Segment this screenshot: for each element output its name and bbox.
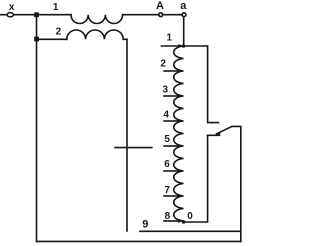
- tap 1 lead: [161, 45, 207, 47]
- terminal A (open circle): [159, 13, 163, 17]
- inductor L2 (3 humps above wire): [67, 30, 123, 39]
- wire: left stub to terminal x: [0, 14, 7, 16]
- arrow tap 3: [178, 94, 183, 98]
- svg-text:7: 7: [164, 185, 170, 196]
- tap 3 lead: [164, 95, 178, 97]
- arrow tap 5: [178, 144, 183, 148]
- svg-text:9: 9: [142, 219, 148, 231]
- inductor L1 (3 humps below wire): [71, 15, 123, 24]
- svg-text:x: x: [9, 2, 15, 13]
- terminal a (open circle): [182, 13, 186, 17]
- arrow tap 4: [178, 119, 183, 123]
- wire: terminal x to junction: [14, 14, 34, 16]
- wire 1: [39, 14, 71, 16]
- middle vertical wire: [126, 39, 128, 231]
- tap 2 lead: [164, 70, 178, 72]
- svg-text:1: 1: [53, 2, 59, 13]
- switch blade to right column: [217, 126, 241, 241]
- wire 2: [39, 38, 67, 40]
- wire 9: [140, 230, 241, 232]
- wire: A to a: [163, 14, 181, 16]
- arrow tap 6: [178, 169, 183, 173]
- junction square top-left: [34, 12, 39, 17]
- arrow tap 7: [178, 194, 183, 198]
- switch blade arrowhead: [215, 132, 220, 135]
- svg-text:2: 2: [56, 26, 62, 37]
- svg-text:A: A: [156, 0, 164, 12]
- arrow tap 1: [178, 44, 183, 48]
- wire: L1 to terminal A: [123, 14, 159, 16]
- svg-text:a: a: [180, 0, 187, 12]
- svg-text:5: 5: [164, 134, 170, 145]
- svg-text:0: 0: [187, 211, 193, 222]
- wire: winding bottom (0) to switch bottom column: [184, 135, 208, 222]
- left vertical bus: [36, 15, 38, 242]
- bottom rail: [37, 240, 241, 242]
- tap 8 lead: [164, 220, 178, 222]
- svg-text:4: 4: [163, 110, 169, 121]
- wire: L2 to middle vertical: [123, 38, 127, 40]
- arrow tap 8: [178, 219, 183, 223]
- terminal x (open ellipse): [7, 13, 13, 17]
- wire: a down to tap 1: [183, 17, 185, 46]
- switch bottom contact stub: [208, 134, 220, 136]
- junction square left bus / wire 2: [34, 37, 39, 42]
- svg-text:8: 8: [165, 211, 171, 222]
- switch top column from tap1: [208, 46, 219, 123]
- svg-text:3: 3: [163, 84, 169, 95]
- svg-text:1: 1: [167, 32, 173, 43]
- tap 4 lead: [164, 120, 178, 122]
- junction dot tap 0: [182, 220, 186, 224]
- tap 7 lead: [164, 195, 178, 197]
- cross tick on middle vertical: [115, 147, 152, 149]
- tap 5 lead: [164, 145, 178, 147]
- svg-text:2: 2: [160, 58, 166, 69]
- svg-text:6: 6: [164, 159, 170, 170]
- tap arrowheads: [178, 44, 221, 223]
- winding (14 humps bulging left): [174, 46, 184, 221]
- arrow tap 2: [178, 69, 183, 73]
- tap 6 lead: [164, 170, 178, 172]
- junction dot tap 1: [182, 44, 186, 48]
